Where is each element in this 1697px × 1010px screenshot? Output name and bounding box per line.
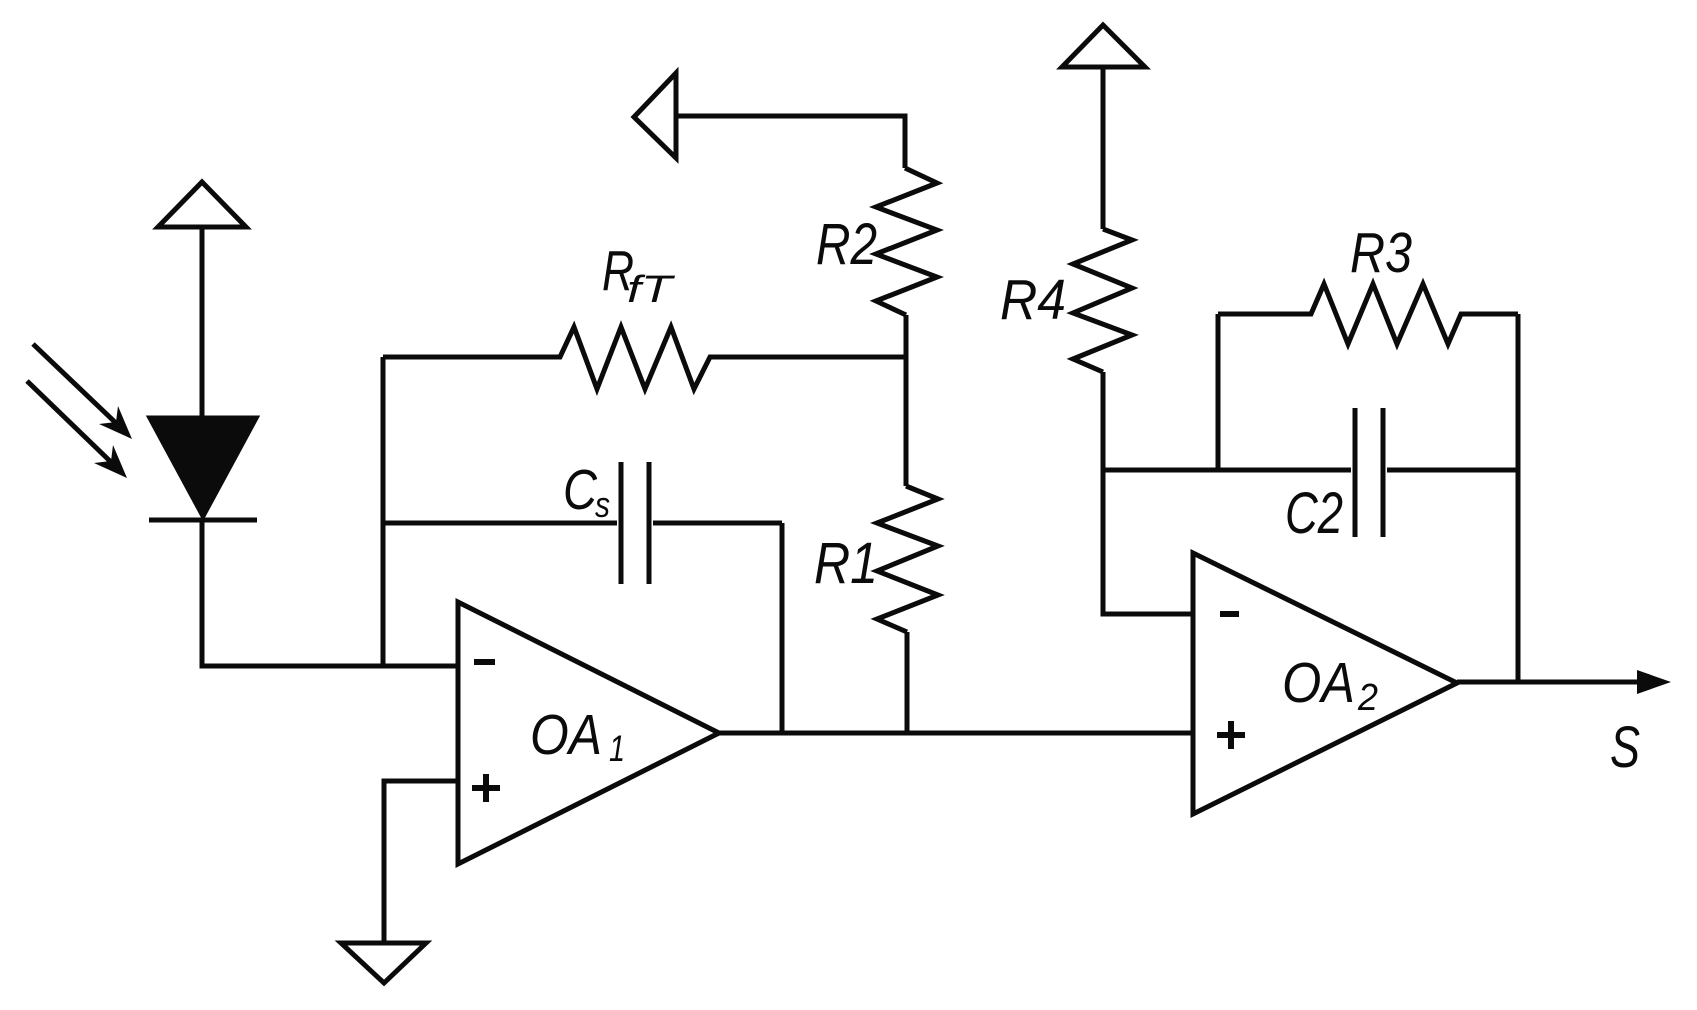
output arrow to S (1457, 670, 1671, 694)
capacitor C2 (1103, 408, 1518, 537)
wire: OA1 output to OA2 noninverting input (716, 731, 1193, 736)
wire: R1 bottom to output line (905, 632, 910, 733)
wire: photodiode cathode to OA1 inverting input (202, 522, 458, 666)
svg-text:OA: OA (1282, 651, 1355, 715)
wire: feedback left vertical (381, 357, 386, 666)
wire: R3/C2 right vertical to output (1516, 314, 1521, 682)
label OA1 (530, 703, 625, 769)
svg-text:fT: fT (627, 269, 676, 311)
label RfT (602, 239, 676, 311)
op-amp OA1 (458, 602, 719, 864)
label OA2 (1282, 651, 1378, 719)
wire: R4 bottom to OA2 inverting input (1103, 372, 1193, 614)
label S (output node) (1610, 715, 1640, 780)
output tap arrow (to R2, pointing left) (634, 73, 905, 168)
resistor RfT (383, 327, 906, 389)
svg-text:S: S (1610, 715, 1640, 780)
wire: R3 left vertical (1216, 314, 1221, 470)
label Cs (563, 458, 610, 525)
power supply arrow V2 (above R4) (1062, 25, 1145, 229)
resistor R3 (1218, 284, 1518, 344)
resistor R1 (877, 486, 938, 632)
svg-text:R4: R4 (1000, 268, 1066, 332)
power supply arrow V1 (photodiode bias) (158, 182, 246, 418)
label R2 (816, 212, 877, 277)
label C2 (1285, 481, 1343, 546)
capacitor Cs (383, 462, 782, 733)
svg-text:R3: R3 (1350, 221, 1412, 285)
svg-text:s: s (595, 484, 610, 525)
op-amp OA2 (1193, 553, 1457, 814)
light arrow 1 (33, 344, 132, 439)
label R3 (1350, 221, 1412, 285)
svg-text:C2: C2 (1285, 481, 1343, 546)
wire: R2 bottom through RfT node to R1 top (904, 315, 909, 486)
label R1 (814, 531, 878, 596)
svg-text:R2: R2 (816, 212, 877, 277)
svg-text:OA: OA (530, 703, 602, 767)
svg-text:C: C (563, 458, 598, 522)
ground (341, 943, 426, 983)
svg-text:R1: R1 (814, 531, 878, 596)
photodiode D1 (149, 418, 257, 520)
label R4 (1000, 268, 1066, 332)
svg-text:1: 1 (609, 728, 625, 769)
light arrow 2 (27, 381, 127, 478)
wire: OA1 noninverting input to ground (384, 781, 458, 941)
resistor R2 (876, 168, 937, 315)
resistor R4 (1073, 229, 1132, 372)
svg-text:2: 2 (1357, 677, 1378, 719)
